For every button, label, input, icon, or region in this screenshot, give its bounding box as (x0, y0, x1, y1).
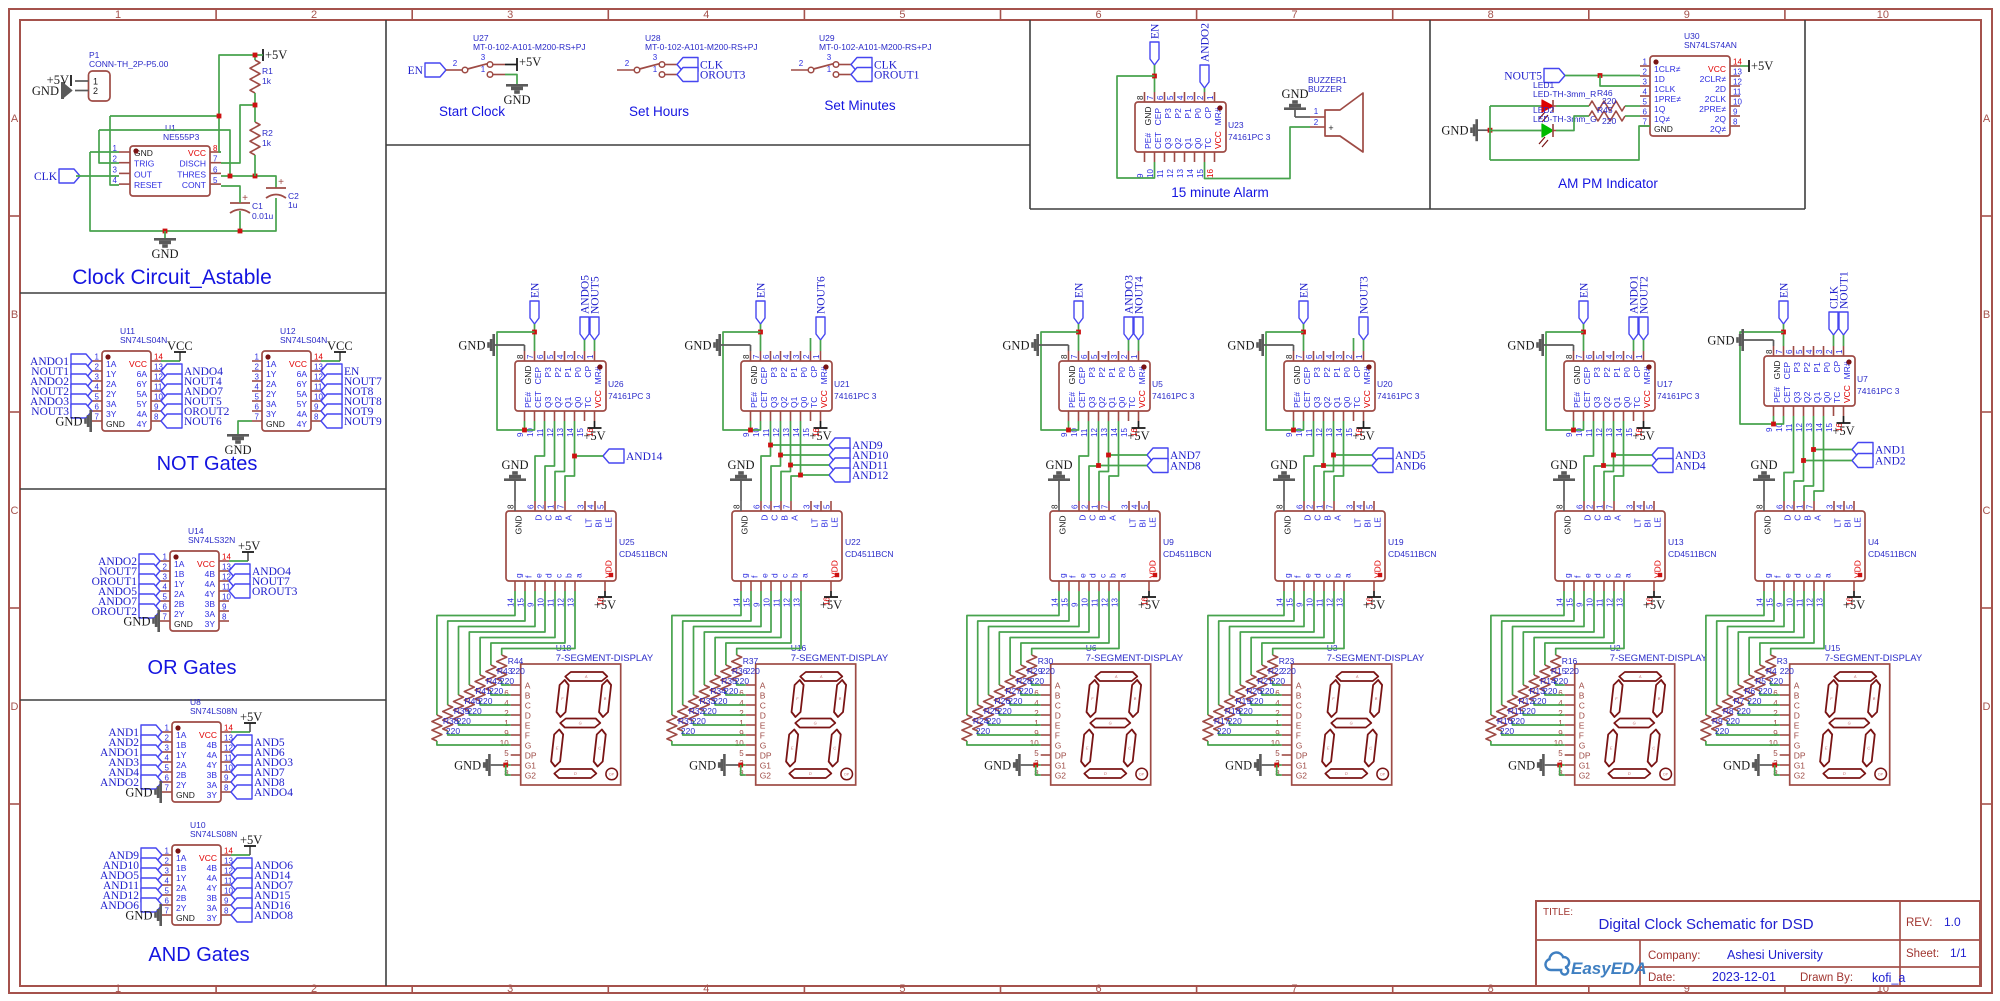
svg-text:G2: G2 (525, 771, 537, 781)
svg-text:5: 5 (1034, 749, 1039, 758)
junction (798, 473, 803, 478)
svg-text:Q0: Q0 (799, 396, 809, 408)
svg-text:7-SEGMENT-DISPLAY: 7-SEGMENT-DISPLAY (556, 653, 654, 664)
svg-text:Q1: Q1 (789, 396, 799, 408)
svg-text:G: G (578, 721, 582, 726)
svg-text:b: b (1333, 573, 1343, 578)
svg-text:NE555P3: NE555P3 (163, 132, 200, 142)
svg-text:220: 220 (446, 726, 460, 736)
svg-text:GND: GND (458, 339, 485, 353)
svg-text:8: 8 (1733, 118, 1738, 127)
svg-text:R7: R7 (1734, 696, 1745, 706)
node NOUT3 flag (31, 404, 92, 418)
resistor R11 220 (1497, 705, 1525, 731)
ground GND at P1 (32, 82, 72, 99)
svg-text:4: 4 (587, 504, 596, 509)
node EN flag (756, 282, 768, 324)
wire resistor to display pin (683, 731, 746, 735)
svg-text:1: 1 (481, 65, 486, 74)
svg-text:GND: GND (1707, 334, 1734, 348)
svg-text:8: 8 (1756, 504, 1765, 509)
svg-text:4A: 4A (297, 409, 308, 419)
svg-text:GND: GND (1067, 366, 1077, 385)
svg-text:VCC: VCC (199, 853, 217, 863)
ground GND at display (1723, 754, 1780, 776)
svg-text:R33: R33 (700, 696, 716, 706)
svg-text:CEP: CEP (533, 367, 543, 385)
svg-text:2Q: 2Q (1715, 114, 1727, 124)
svg-text:2: 2 (1345, 354, 1354, 359)
svg-text:CD4511BCN: CD4511BCN (1668, 549, 1717, 559)
wire decoder output (469, 591, 545, 685)
svg-text:3B: 3B (207, 770, 218, 780)
svg-text:A: A (760, 681, 766, 691)
svg-text:3: 3 (792, 354, 801, 359)
svg-text:CEP: CEP (1582, 367, 1592, 385)
svg-text:AND8: AND8 (1170, 461, 1201, 473)
svg-text:BI: BI (1643, 520, 1653, 528)
svg-text:g: g (740, 573, 750, 578)
node OROUT1 flag at U29 (851, 68, 920, 82)
svg-text:R15: R15 (1551, 666, 1567, 676)
svg-text:Q2: Q2 (553, 396, 563, 408)
junction (768, 443, 773, 448)
ground GND at U10 (125, 904, 162, 926)
svg-text:A: A (1613, 515, 1623, 521)
LED LED1 red (1533, 80, 1596, 122)
svg-text:a: a (1343, 573, 1353, 578)
svg-text:G1: G1 (1055, 761, 1067, 771)
svg-text:R42: R42 (486, 676, 502, 686)
svg-text:9: 9 (222, 603, 227, 612)
svg-text:GND: GND (106, 419, 125, 429)
wire resistor to display pin (1556, 681, 1565, 685)
svg-text:2: 2 (93, 86, 98, 96)
svg-text:U9: U9 (1163, 537, 1174, 547)
svg-text:C: C (1579, 701, 1585, 711)
node NOT8 flag (321, 384, 374, 398)
svg-text:TC: TC (809, 397, 819, 408)
svg-text:GND: GND (176, 913, 195, 923)
wire decoder output (1706, 591, 1764, 715)
section titles (72, 98, 1658, 966)
svg-text:5: 5 (1141, 504, 1150, 509)
svg-text:1A: 1A (174, 559, 185, 569)
svg-text:3: 3 (165, 744, 170, 753)
svg-text:GND: GND (1507, 339, 1534, 353)
svg-text:10: 10 (1030, 739, 1039, 748)
node ANDO1 flag (100, 745, 162, 759)
svg-text:GND: GND (684, 339, 711, 353)
svg-text:B: B (760, 691, 766, 701)
svg-text:3A: 3A (207, 780, 218, 790)
wire decoder output (1208, 591, 1284, 715)
wire Q2 to C (1594, 421, 1604, 501)
svg-text:G: G (1055, 741, 1062, 751)
svg-text:VCC: VCC (1213, 131, 1223, 149)
svg-text:Q1: Q1 (1612, 396, 1622, 408)
wire decoder output (683, 591, 751, 705)
svg-text:F: F (525, 731, 530, 741)
svg-text:CP: CP (1127, 365, 1137, 377)
svg-text:CEP: CEP (1302, 367, 1312, 385)
svg-text:R30: R30 (1038, 656, 1054, 666)
svg-text:Q1: Q1 (563, 396, 573, 408)
svg-text:6: 6 (213, 165, 218, 174)
svg-text:B: B (1603, 515, 1613, 521)
svg-text:a: a (1823, 573, 1833, 578)
svg-text:2Y: 2Y (176, 780, 187, 790)
wire resistor to display pin (437, 741, 511, 745)
svg-text:DP: DP (1878, 773, 1884, 777)
svg-text:Q0: Q0 (1342, 396, 1352, 408)
junction (1772, 763, 1777, 768)
svg-text:6: 6 (536, 354, 545, 359)
svg-text:NOUT6: NOUT6 (184, 416, 222, 428)
junction (1106, 453, 1111, 458)
svg-text:220: 220 (713, 696, 727, 706)
node ANDO8 flag (231, 908, 293, 922)
resistor R30 220 (1027, 655, 1055, 681)
svg-text:SN74LS08N: SN74LS08N (190, 706, 237, 716)
wire decoder output (480, 591, 555, 675)
svg-text:7: 7 (1575, 354, 1584, 359)
resistor R44 220 (497, 655, 525, 681)
svg-text:Ashesi University: Ashesi University (1727, 948, 1824, 962)
svg-text:2Y: 2Y (106, 389, 117, 399)
svg-text:1: 1 (773, 504, 782, 509)
wire resistor to display pin (967, 741, 1041, 745)
svg-text:3: 3 (1626, 504, 1635, 509)
svg-text:3: 3 (1346, 504, 1355, 509)
svg-text:EN: EN (1579, 282, 1591, 298)
svg-text:7: 7 (165, 784, 170, 793)
svg-text:8: 8 (314, 413, 319, 422)
svg-text:3A: 3A (205, 609, 216, 619)
wire CP stub (1353, 338, 1355, 351)
wire decoder output (502, 591, 575, 655)
svg-text:1: 1 (586, 354, 595, 359)
svg-text:C: C (1055, 701, 1061, 711)
resistor R39 220 (443, 705, 471, 731)
wire decoder output (737, 591, 801, 655)
svg-text:EN: EN (1779, 282, 1791, 298)
svg-text:G1: G1 (1296, 761, 1308, 771)
wire Q0 to A (565, 421, 575, 501)
svg-text:GND: GND (125, 786, 152, 800)
svg-text:3: 3 (1643, 78, 1648, 87)
svg-text:3: 3 (481, 53, 486, 62)
svg-text:1Y: 1Y (106, 369, 117, 379)
svg-text:R43: R43 (497, 666, 513, 676)
node NOUT4 flag (161, 374, 222, 388)
svg-text:4: 4 (703, 9, 709, 21)
wire Q0 to A (1614, 421, 1624, 501)
svg-text:PE#: PE# (1572, 392, 1582, 408)
svg-text:5: 5 (1773, 749, 1778, 758)
svg-text:+5V: +5V (809, 429, 831, 443)
svg-text:8: 8 (1765, 349, 1774, 354)
svg-text:3: 3 (827, 53, 832, 62)
svg-text:8: 8 (224, 784, 229, 793)
svg-text:220: 220 (1228, 716, 1242, 726)
svg-text:R28: R28 (1016, 676, 1032, 686)
wire resistor to display pin (1771, 681, 1780, 685)
svg-text:DISCH: DISCH (180, 159, 206, 169)
svg-text:G: G (1296, 741, 1303, 751)
svg-text:10: 10 (1733, 98, 1742, 107)
svg-text:a: a (800, 573, 810, 578)
svg-text:220: 220 (478, 696, 492, 706)
svg-text:2Y: 2Y (174, 609, 185, 619)
svg-text:5: 5 (1275, 749, 1280, 758)
svg-text:R17: R17 (1214, 716, 1230, 726)
svg-text:1PRE≠: 1PRE≠ (1654, 94, 1681, 104)
node AND3 flag (108, 755, 162, 769)
svg-text:G: G (525, 741, 532, 751)
svg-text:Q3: Q3 (1087, 396, 1097, 408)
wire resistor to display pin (1728, 721, 1780, 725)
wire decoder output (1502, 591, 1574, 705)
node AND12 flag (801, 468, 889, 482)
svg-text:6: 6 (1156, 95, 1165, 100)
wire decoder output (1534, 591, 1604, 675)
svg-text:220: 220 (1271, 676, 1285, 686)
svg-text:E: E (525, 721, 531, 731)
svg-text:Q2: Q2 (1322, 396, 1332, 408)
svg-text:P2: P2 (1802, 362, 1812, 373)
svg-text:1: 1 (165, 847, 170, 856)
svg-text:PE#: PE# (1067, 392, 1077, 408)
svg-text:2: 2 (1081, 504, 1090, 509)
power +5V at U27 (505, 55, 541, 71)
wire resistor to display pin (1021, 691, 1041, 695)
svg-text:NOUT4: NOUT4 (1134, 276, 1146, 314)
svg-text:9: 9 (1558, 729, 1563, 738)
svg-text:B: B (1803, 515, 1813, 521)
svg-text:Q0: Q0 (1117, 396, 1127, 408)
wire resistor to display pin (989, 721, 1041, 725)
wire NOUT5 to 1D (1565, 75, 1640, 77)
svg-text:U4: U4 (1868, 537, 1879, 547)
svg-text:1Q≠: 1Q≠ (1654, 114, 1670, 124)
svg-text:4: 4 (1805, 349, 1814, 354)
node NOUT5 flag (590, 276, 602, 351)
svg-text:GND: GND (1058, 516, 1068, 535)
svg-text:2CLK: 2CLK (1705, 94, 1727, 104)
node AND9 flag (771, 438, 883, 452)
svg-text:1: 1 (1316, 504, 1325, 509)
wire resistor to display pin (704, 711, 745, 715)
svg-text:9: 9 (1684, 9, 1690, 21)
junction (522, 428, 527, 433)
svg-text:GND: GND (501, 458, 528, 472)
svg-text:6: 6 (753, 504, 762, 509)
ground GND at counter (1002, 334, 1068, 356)
svg-text:CD4511BCN: CD4511BCN (619, 549, 668, 559)
junction (1581, 330, 1586, 335)
svg-text:6: 6 (1095, 983, 1101, 995)
wire resistor to display pin (448, 731, 511, 735)
svg-text:F: F (1055, 731, 1060, 741)
svg-text:3B: 3B (205, 599, 216, 609)
svg-text:R13: R13 (1529, 686, 1545, 696)
wire decoder output (989, 591, 1080, 695)
wire PE# stub (1773, 416, 1775, 424)
wire resistor to display pin (502, 681, 511, 685)
svg-text:g: g (1283, 573, 1293, 578)
svg-text:R26: R26 (995, 696, 1011, 706)
svg-text:1: 1 (1635, 354, 1644, 359)
svg-text:P2: P2 (1097, 367, 1107, 378)
svg-text:BI: BI (1138, 520, 1148, 528)
svg-text:5: 5 (1646, 504, 1655, 509)
svg-text:+5V: +5V (1363, 598, 1385, 612)
wire rail to U30 GND (1490, 126, 1650, 160)
svg-text:Q3: Q3 (1312, 396, 1322, 408)
svg-text:2B: 2B (176, 893, 187, 903)
wire EN loop to CET (1117, 76, 1155, 178)
svg-text:AND6: AND6 (1395, 461, 1426, 473)
ground GND at U8 (125, 781, 162, 803)
svg-text:EN: EN (756, 282, 768, 298)
svg-text:13: 13 (1733, 68, 1742, 77)
wire resistor to display pin (715, 701, 746, 705)
wire G2 loop (1277, 765, 1282, 775)
junction (1571, 428, 1576, 433)
ground GND at display (689, 754, 746, 776)
node ANDO7 flag (161, 384, 223, 398)
svg-text:d: d (770, 573, 780, 578)
svg-text:8: 8 (1556, 504, 1565, 509)
wire Q0 to A (791, 421, 801, 501)
svg-text:1: 1 (165, 724, 170, 733)
svg-text:7: 7 (165, 907, 170, 916)
svg-text:3A: 3A (106, 399, 117, 409)
svg-text:9: 9 (1773, 729, 1778, 738)
wire resistor to display pin (1251, 701, 1282, 705)
wire U27 pin1 to GND (505, 75, 517, 85)
svg-text:Company:: Company: (1648, 950, 1700, 962)
power +5V at counter (1832, 416, 1854, 438)
wire Q2 to C (1794, 416, 1804, 501)
svg-text:a: a (1623, 573, 1633, 578)
svg-text:GND: GND (1572, 366, 1582, 385)
wire EN loop to CET (1041, 332, 1079, 430)
svg-text:B: B (11, 309, 18, 321)
svg-text:220: 220 (1780, 666, 1794, 676)
svg-text:4Y: 4Y (205, 589, 216, 599)
svg-text:G: G (1108, 721, 1112, 726)
svg-text:7: 7 (1070, 354, 1079, 359)
svg-text:CET: CET (1582, 391, 1592, 408)
wire resistor to display pin (1491, 741, 1565, 745)
svg-text:3: 3 (163, 573, 168, 582)
svg-text:e: e (534, 573, 544, 578)
svg-text:LE: LE (1853, 517, 1863, 528)
node ANDO5 flag (100, 868, 162, 882)
svg-text:+5V: +5V (820, 598, 842, 612)
power +5V at decoder (1643, 591, 1665, 612)
decoder U19 CD4511 (1275, 501, 1437, 607)
inverter U11 SN74LS04N (92, 326, 167, 431)
wire Q1 to B (1099, 421, 1109, 501)
svg-text:5: 5 (1166, 95, 1175, 100)
svg-text:BI: BI (594, 520, 604, 528)
svg-text:P2: P2 (1173, 108, 1183, 119)
svg-text:+: + (1328, 123, 1333, 133)
wire decoder output (999, 591, 1089, 685)
svg-text:D: D (1055, 711, 1061, 721)
node NOUT8 flag (321, 394, 382, 408)
svg-text:2: 2 (1275, 709, 1280, 718)
svg-text:10: 10 (222, 593, 231, 602)
svg-text:1k: 1k (262, 76, 272, 86)
svg-text:6Y: 6Y (297, 379, 308, 389)
power +5V at U14 (229, 539, 260, 561)
svg-text:6: 6 (255, 403, 260, 412)
svg-text:R3: R3 (1777, 656, 1788, 666)
svg-text:DP: DP (1579, 751, 1591, 761)
junction (1801, 458, 1806, 463)
svg-text:220: 220 (457, 716, 471, 726)
wire decoder output (1010, 591, 1099, 675)
counter U26 74161 (515, 351, 651, 437)
wire resistor to display pin (978, 731, 1041, 735)
svg-text:P3: P3 (1792, 362, 1802, 373)
svg-text:NOUT1: NOUT1 (1839, 271, 1851, 309)
svg-text:G2: G2 (1579, 771, 1591, 781)
svg-text:LE: LE (1148, 517, 1158, 528)
wire decoder output (715, 591, 781, 675)
svg-text:EN: EN (1074, 282, 1086, 298)
decoder U22 CD4511 (732, 501, 894, 607)
svg-text:9: 9 (739, 729, 744, 738)
svg-text:9: 9 (1565, 432, 1574, 437)
wire ground rail (90, 152, 276, 231)
svg-text:R31: R31 (678, 716, 694, 726)
svg-text:1CLR≠: 1CLR≠ (1654, 64, 1681, 74)
svg-text:3: 3 (255, 373, 260, 382)
svg-text:EN: EN (1299, 282, 1311, 298)
svg-text:3B: 3B (207, 893, 218, 903)
svg-text:3: 3 (113, 165, 118, 174)
svg-text:TC: TC (1203, 138, 1213, 149)
svg-text:CD4511BCN: CD4511BCN (845, 549, 894, 559)
svg-text:VCC: VCC (197, 559, 215, 569)
junction (163, 229, 243, 234)
svg-text:7-SEGMENT-DISPLAY: 7-SEGMENT-DISPLAY (1610, 653, 1708, 664)
inverter U12 SN74LS04N (252, 326, 327, 431)
svg-text:5: 5 (1366, 504, 1375, 509)
svg-text:6: 6 (1071, 504, 1080, 509)
svg-text:DP: DP (1380, 773, 1386, 777)
svg-text:220: 220 (1726, 716, 1740, 726)
svg-text:C1: C1 (252, 201, 263, 211)
svg-text:220: 220 (1769, 676, 1783, 686)
svg-text:P3: P3 (1592, 367, 1602, 378)
svg-text:GND: GND (1270, 458, 1297, 472)
node AND10 flag (781, 448, 889, 462)
wire resistor to display pin (737, 681, 746, 685)
svg-text:+5V: +5V (240, 710, 262, 724)
svg-text:P0: P0 (1622, 367, 1632, 378)
svg-text:2: 2 (453, 59, 458, 68)
svg-text:7: 7 (783, 504, 792, 509)
ground GND at U14 (123, 610, 160, 632)
svg-text:DP: DP (844, 773, 850, 777)
svg-text:THRES: THRES (177, 169, 206, 179)
